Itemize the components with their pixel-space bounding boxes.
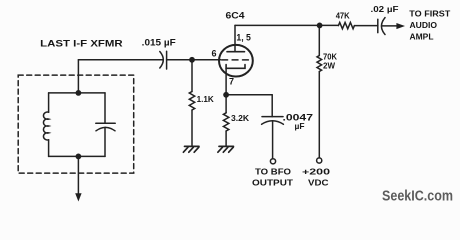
svg-text:1, 5: 1, 5 (236, 32, 251, 42)
svg-text:+200: +200 (302, 167, 330, 177)
svg-text:AUDIO: AUDIO (410, 20, 438, 30)
svg-text:µF: µF (295, 121, 305, 131)
svg-text:3.2K: 3.2K (231, 113, 250, 123)
svg-text:2W: 2W (323, 60, 336, 70)
svg-text:.015 µF: .015 µF (142, 37, 177, 47)
svg-text:SeekIC.com: SeekIC.com (382, 189, 453, 205)
svg-text:6: 6 (212, 49, 217, 59)
svg-text:VDC: VDC (308, 177, 329, 187)
svg-text:47K: 47K (336, 10, 351, 20)
svg-text:OUTPUT: OUTPUT (252, 177, 294, 187)
svg-text:1.1K: 1.1K (197, 95, 214, 104)
svg-text:.02 µF: .02 µF (371, 5, 399, 14)
svg-text:TO BFO: TO BFO (255, 166, 291, 176)
svg-text:6C4: 6C4 (226, 11, 245, 21)
svg-text:LAST I-F XFMR: LAST I-F XFMR (40, 39, 123, 50)
svg-text:TO FIRST: TO FIRST (409, 9, 451, 19)
svg-text:7: 7 (229, 77, 234, 87)
svg-text:AMPL: AMPL (410, 32, 434, 42)
